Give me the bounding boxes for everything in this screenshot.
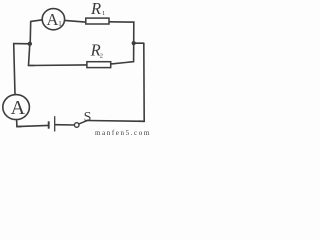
wire A to battery <box>17 125 48 126</box>
svg-text:1: 1 <box>58 19 62 28</box>
switch S pivot <box>74 123 79 128</box>
wire left riser from node to A1 branch <box>30 20 42 44</box>
wire right rail down <box>138 43 144 121</box>
svg-text:S: S <box>84 110 92 125</box>
svg-text:2: 2 <box>100 53 103 60</box>
resistor R2 <box>87 62 111 68</box>
wire node A horizontal to left rail <box>14 43 30 45</box>
wire A1 to R1 <box>65 20 86 22</box>
svg-text:A: A <box>47 10 59 29</box>
wire node B to right rail <box>134 42 144 44</box>
ammeter A1 <box>42 9 64 30</box>
svg-text:R: R <box>90 0 101 18</box>
svg-text:manfen5.com: manfen5.com <box>95 129 151 136</box>
battery short plate (negative) <box>48 121 50 128</box>
wire stub below ammeter A <box>17 120 21 127</box>
node B junction dot <box>132 41 136 45</box>
wire to R2 left <box>29 64 87 67</box>
wire battery to switch <box>56 124 75 126</box>
resistor R1 <box>86 18 109 24</box>
ammeter A <box>3 95 30 120</box>
node A junction dot <box>28 42 32 46</box>
wire R1 to top-right elbow <box>110 22 134 43</box>
svg-text:A: A <box>11 97 26 119</box>
wire left rail down to ammeter A <box>14 44 15 95</box>
wire R2 to right elbow up to node B <box>111 43 133 64</box>
wire bottom right to switch <box>87 120 145 123</box>
battery long plate (positive) <box>54 116 56 131</box>
switch S blade <box>79 120 88 124</box>
svg-text:1: 1 <box>102 10 105 17</box>
wire node A down to R2 branch <box>29 44 35 66</box>
